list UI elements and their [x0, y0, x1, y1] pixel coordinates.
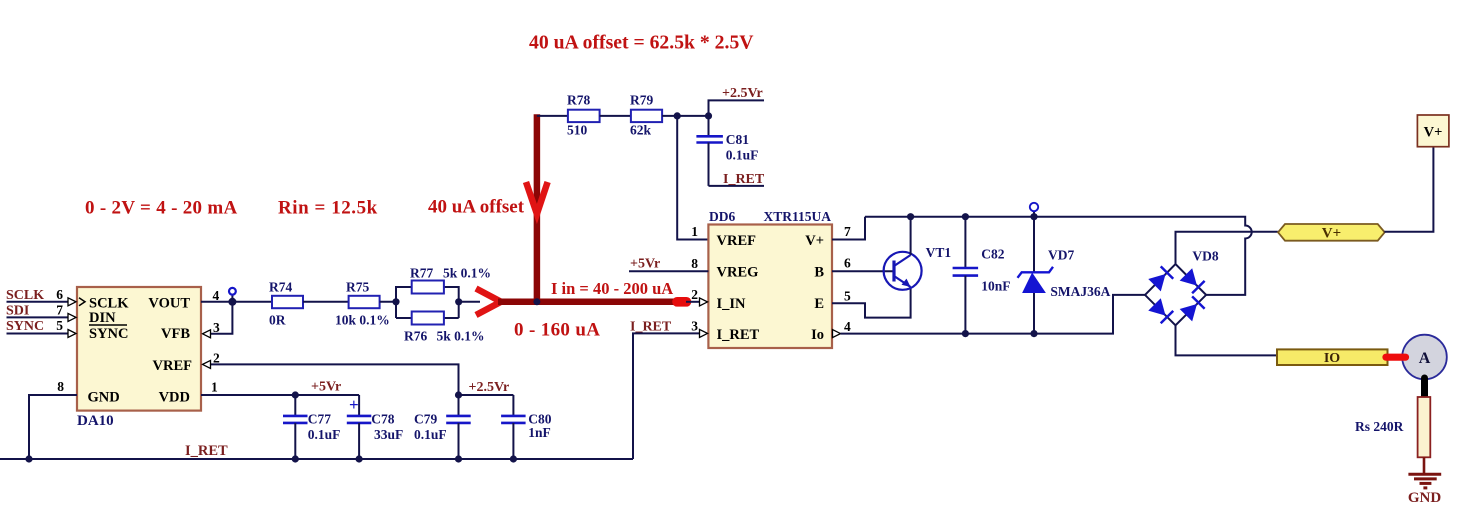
svg-text:I_RET: I_RET: [717, 327, 760, 343]
wire bridge top to V+ connector: [1176, 232, 1278, 264]
svg-text:C82: C82: [981, 247, 1004, 262]
capacitor C80: [501, 395, 552, 463]
svg-text:GND: GND: [1408, 490, 1442, 506]
svg-text:2: 2: [691, 287, 698, 302]
svg-text:B: B: [814, 265, 824, 281]
capacitor C82: [953, 213, 1011, 337]
svg-text:SCLK: SCLK: [6, 288, 44, 303]
diode VD7 SMAJ36A: [1018, 213, 1111, 337]
svg-text:R79: R79: [630, 93, 653, 108]
svg-text:C77: C77: [308, 412, 331, 427]
red flow arrow right: [476, 289, 501, 316]
svg-text:I_IN: I_IN: [717, 296, 747, 312]
red wire IO to ammeter: [1386, 354, 1406, 361]
resistor R76 (parallel bottom): [396, 312, 485, 344]
node terminal circle on V+ rail: [1030, 203, 1038, 217]
svg-text:2: 2: [213, 351, 220, 366]
svg-text:5: 5: [844, 289, 851, 304]
svg-text:3: 3: [213, 320, 220, 335]
svg-text:+5Vr: +5Vr: [630, 257, 660, 272]
power +2.5Vr top: [709, 86, 765, 116]
svg-text:I_RET: I_RET: [630, 320, 672, 335]
thick current wire horizontal: [498, 299, 684, 306]
resistor R79: [630, 93, 662, 138]
svg-text:IO: IO: [1324, 351, 1340, 366]
net label I_RET at pin 3: [630, 320, 708, 460]
thick black wire ammeter to Rs: [1421, 378, 1428, 396]
svg-text:C79: C79: [414, 412, 437, 427]
svg-text:DA10: DA10: [77, 413, 114, 429]
capacitor C78 electrolytic: [347, 395, 403, 463]
resistor R75: [335, 280, 390, 328]
node offset/current junction: [533, 298, 540, 305]
capacitor C79: [414, 391, 471, 462]
svg-text:33uF: 33uF: [374, 427, 403, 442]
wire R79 to C81 node: [662, 115, 708, 117]
svg-text:10nF: 10nF: [981, 279, 1010, 294]
resistor R74: [269, 280, 303, 328]
thick offset wire vertical: [534, 114, 541, 301]
svg-text:SYNC: SYNC: [6, 319, 44, 334]
svg-text:I in = 40 - 200 uA: I in = 40 - 200 uA: [551, 279, 673, 298]
pin 2 input arrow: [700, 298, 708, 306]
svg-text:5: 5: [56, 318, 63, 333]
wire down to XTR pin 1: [677, 116, 708, 240]
bottom I_RET rail: [0, 443, 633, 459]
wire into I_IN pin: [686, 301, 700, 303]
svg-text:DD6: DD6: [709, 209, 735, 224]
svg-text:SYNC: SYNC: [89, 326, 128, 342]
connector IO pill: [1277, 349, 1388, 365]
svg-text:0.1uF: 0.1uF: [414, 427, 447, 442]
wire SCLK: [7, 301, 69, 303]
svg-text:I_RET: I_RET: [185, 443, 228, 459]
svg-text:40 uA offset: 40 uA offset: [428, 197, 525, 218]
diode bottom-right: [1180, 296, 1205, 321]
svg-text:VD7: VD7: [1048, 248, 1074, 263]
wire V+ pill to V+ box: [1384, 147, 1433, 232]
svg-text:6: 6: [844, 256, 851, 271]
svg-text:SMAJ36A: SMAJ36A: [1050, 284, 1110, 299]
svg-text:8: 8: [691, 256, 698, 271]
svg-text:SDI: SDI: [6, 304, 29, 319]
net label SCLK: [6, 287, 85, 306]
wire B pin 6 to transistor base: [832, 270, 894, 272]
wire R75 to parallel pair: [380, 301, 396, 303]
svg-text:1: 1: [211, 380, 218, 395]
node right of pair: [455, 298, 462, 305]
svg-text:40 uA offset = 62.5k * 2.5V: 40 uA offset = 62.5k * 2.5V: [529, 32, 754, 54]
top V+ rail: [865, 217, 1252, 295]
svg-text:VT1: VT1: [926, 245, 952, 260]
node left of pair: [392, 298, 399, 305]
svg-text:VREG: VREG: [717, 265, 759, 281]
svg-text:VFB: VFB: [161, 326, 190, 342]
svg-text:0 - 160 uA: 0 - 160 uA: [514, 320, 600, 341]
IC DA10 body: [77, 287, 201, 429]
wire GND pin 8 of DA10: [25, 379, 77, 463]
svg-text:6: 6: [56, 287, 63, 302]
diode top-right: [1180, 268, 1205, 293]
port V+ box: [1417, 115, 1449, 147]
net label I_RET at C81: [709, 172, 765, 187]
capacitor C77: [283, 395, 340, 463]
wire SDI: [7, 316, 69, 318]
svg-text:5k 0.1%: 5k 0.1%: [437, 329, 485, 344]
svg-text:4: 4: [213, 288, 220, 303]
svg-text:Rin = 12.5k: Rin = 12.5k: [278, 198, 378, 219]
wire VDD pin 1 to +5Vr rail: [201, 380, 359, 399]
wire SYNC: [7, 333, 69, 335]
IC DD6 XTR115UA body: [691, 209, 851, 348]
resistor R78: [567, 93, 600, 138]
svg-text:VREF: VREF: [717, 233, 757, 249]
resistor Rs 240R: [1355, 397, 1430, 457]
wire R74-R75: [303, 301, 349, 303]
svg-text:Io: Io: [811, 327, 824, 343]
net label SYNC: [6, 318, 76, 337]
transistor VT1: [884, 245, 952, 290]
svg-text:62k: 62k: [630, 123, 652, 138]
wire collector to rail: [910, 217, 912, 255]
svg-text:0.1uF: 0.1uF: [308, 427, 341, 442]
svg-text:+5Vr: +5Vr: [311, 380, 341, 395]
wire VOUT pin 4: [201, 288, 272, 303]
svg-text:R76: R76: [404, 329, 427, 344]
wire E pin 5 path: [832, 287, 911, 318]
svg-text:1: 1: [691, 224, 698, 239]
svg-text:VREF: VREF: [153, 358, 193, 374]
capacitor C81: [696, 116, 758, 186]
svg-text:R77: R77: [410, 266, 433, 281]
svg-text:0R: 0R: [269, 313, 286, 328]
svg-text:V+: V+: [1424, 125, 1443, 141]
svg-text:R74: R74: [269, 280, 292, 295]
wire Rs to GND: [1423, 457, 1426, 473]
svg-text:8: 8: [57, 379, 64, 394]
svg-text:DIN: DIN: [89, 310, 116, 326]
wire offset top to R78: [537, 115, 568, 117]
svg-text:1nF: 1nF: [528, 425, 551, 440]
svg-text:XTR115UA: XTR115UA: [763, 209, 831, 224]
svg-text:VDD: VDD: [159, 390, 190, 406]
svg-text:7: 7: [844, 224, 851, 239]
red down arrow on offset wire: [526, 182, 548, 214]
svg-text:3: 3: [691, 319, 698, 334]
wire R78-R79: [600, 115, 631, 117]
wire pair to arrow: [459, 301, 480, 303]
wire VREF pin 2: [203, 351, 459, 396]
wire VFB pin 3: [203, 302, 233, 338]
connector V+ pill: [1278, 224, 1385, 242]
wire bridge bottom to IO: [1176, 325, 1278, 355]
svg-text:7: 7: [56, 303, 63, 318]
power +2.5Vr rail at C80: [459, 380, 514, 395]
svg-text:R78: R78: [567, 93, 590, 108]
wire V+ pin 7 up to rail: [832, 217, 865, 240]
svg-text:E: E: [814, 296, 824, 312]
svg-text:+2.5Vr: +2.5Vr: [469, 380, 510, 395]
wire Io pin 4 rail: [833, 295, 1146, 338]
svg-text:5k 0.1%: 5k 0.1%: [443, 266, 491, 281]
diode bottom-left: [1148, 298, 1173, 323]
node VOUT terminal circle: [228, 288, 236, 306]
svg-text:GND: GND: [88, 390, 120, 406]
svg-text:10k 0.1%: 10k 0.1%: [335, 313, 390, 328]
svg-text:V+: V+: [1322, 226, 1341, 242]
svg-text:+2.5Vr: +2.5Vr: [722, 86, 763, 101]
net label SDI: [6, 303, 76, 322]
ammeter A: [1402, 335, 1447, 380]
red wire end cap: [677, 297, 687, 307]
svg-text:Rs 240R: Rs 240R: [1355, 419, 1404, 434]
diode top-left: [1148, 266, 1173, 291]
ground GND: [1408, 474, 1442, 506]
bridge VD8: [1145, 248, 1219, 325]
svg-text:+: +: [349, 395, 359, 414]
svg-text:0 - 2V = 4 - 20 mA: 0 - 2V = 4 - 20 mA: [85, 198, 238, 219]
svg-text:C78: C78: [371, 412, 394, 427]
svg-text:VD8: VD8: [1192, 248, 1218, 263]
svg-text:510: 510: [567, 123, 588, 138]
svg-text:R75: R75: [346, 280, 369, 295]
svg-text:4: 4: [844, 319, 851, 334]
svg-text:V+: V+: [805, 233, 824, 249]
power +5Vr at pin 8: [629, 257, 708, 272]
svg-text:I_RET: I_RET: [723, 172, 765, 187]
svg-text:0.1uF: 0.1uF: [726, 148, 759, 163]
resistor R77 (parallel top): [396, 266, 491, 319]
svg-text:A: A: [1419, 350, 1431, 367]
svg-text:C81: C81: [726, 132, 749, 147]
svg-text:VOUT: VOUT: [148, 296, 190, 312]
